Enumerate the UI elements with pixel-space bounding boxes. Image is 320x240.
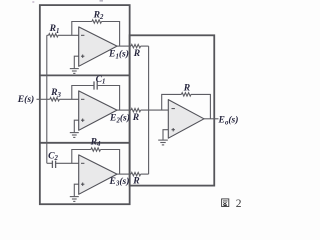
svg-text:E1(s): E1(s) xyxy=(108,49,129,61)
svg-text:2: 2 xyxy=(236,198,242,210)
svg-text:R: R xyxy=(183,83,191,94)
svg-text:Eo(s): Eo(s) xyxy=(218,115,239,127)
svg-text:R: R xyxy=(132,176,140,187)
svg-text:R: R xyxy=(133,48,141,59)
svg-text:R: R xyxy=(132,112,140,123)
svg-text:E3(s): E3(s) xyxy=(109,176,130,188)
svg-text:E2(s): E2(s) xyxy=(109,113,130,125)
svg-text:E(s): E(s) xyxy=(17,94,35,105)
